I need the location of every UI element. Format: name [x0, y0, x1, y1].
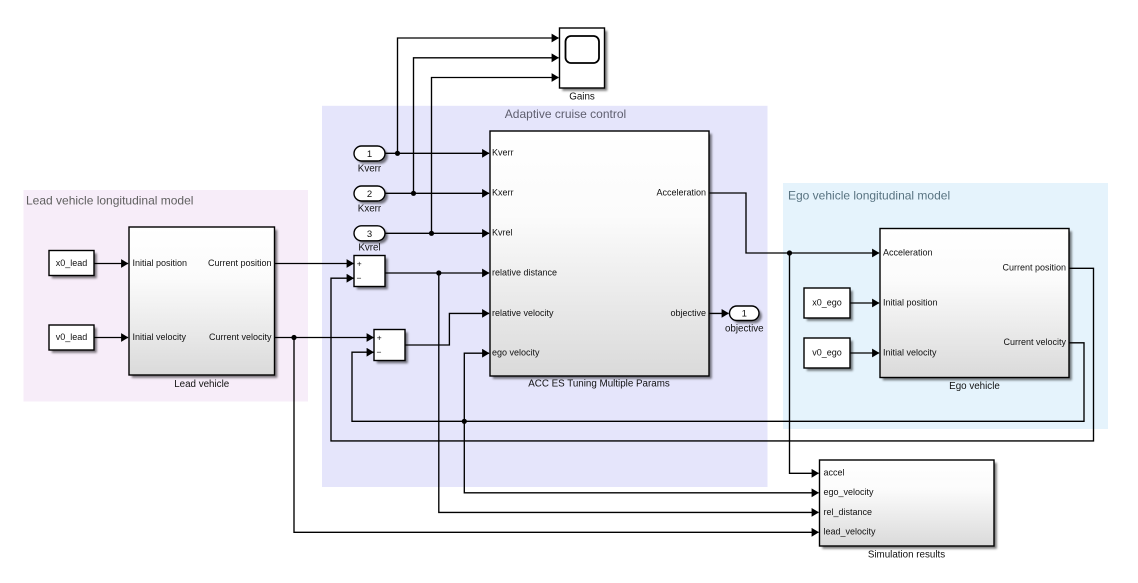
svg-text:−: − — [377, 347, 382, 357]
svg-text:Kxerr: Kxerr — [358, 204, 382, 215]
svg-text:v0_lead: v0_lead — [56, 332, 88, 342]
svg-text:ego velocity: ego velocity — [492, 348, 540, 358]
svg-text:Ego vehicle longitudinal model: Ego vehicle longitudinal model — [788, 189, 950, 203]
svg-text:3: 3 — [367, 229, 372, 240]
svg-text:rel_distance: rel_distance — [824, 507, 873, 517]
svg-text:Kxerr: Kxerr — [492, 188, 514, 198]
svg-text:objective: objective — [670, 308, 706, 318]
svg-text:ACC ES Tuning Multiple Params: ACC ES Tuning Multiple Params — [528, 379, 670, 390]
svg-text:relative distance: relative distance — [492, 268, 557, 278]
svg-text:1: 1 — [367, 149, 372, 160]
svg-text:ego_velocity: ego_velocity — [824, 487, 875, 497]
svg-text:Initial velocity: Initial velocity — [883, 347, 937, 357]
svg-text:accel: accel — [824, 468, 845, 478]
svg-text:v0_ego: v0_ego — [812, 347, 842, 357]
svg-text:Initial position: Initial position — [883, 297, 938, 307]
svg-text:+: + — [377, 332, 382, 342]
svg-text:Ego vehicle: Ego vehicle — [949, 381, 1000, 392]
svg-text:−: − — [357, 273, 362, 283]
svg-text:Lead vehicle longitudinal mode: Lead vehicle longitudinal model — [26, 194, 193, 208]
svg-text:lead_velocity: lead_velocity — [824, 527, 877, 537]
svg-text:Adaptive cruise control: Adaptive cruise control — [505, 107, 626, 121]
svg-text:Kvrel: Kvrel — [358, 243, 380, 254]
svg-text:objective: objective — [725, 323, 764, 334]
svg-text:2: 2 — [367, 189, 372, 200]
svg-text:Initial position: Initial position — [133, 258, 188, 268]
svg-text:+: + — [357, 258, 362, 268]
svg-text:Acceleration: Acceleration — [656, 187, 706, 197]
svg-text:Current position: Current position — [208, 258, 272, 268]
svg-text:x0_lead: x0_lead — [56, 258, 88, 268]
svg-text:Kvrel: Kvrel — [492, 228, 513, 238]
svg-text:Lead vehicle: Lead vehicle — [174, 379, 230, 390]
svg-text:Kverr: Kverr — [358, 164, 382, 175]
svg-text:relative velocity: relative velocity — [492, 308, 554, 318]
svg-text:Simulation results: Simulation results — [868, 549, 945, 560]
svg-text:Kverr: Kverr — [492, 148, 514, 158]
svg-text:Gains: Gains — [569, 92, 595, 103]
svg-text:x0_ego: x0_ego — [812, 297, 842, 307]
svg-text:1: 1 — [742, 309, 747, 320]
svg-text:Acceleration: Acceleration — [883, 247, 933, 257]
svg-text:Current position: Current position — [1002, 263, 1066, 273]
svg-text:Current velocity: Current velocity — [209, 332, 272, 342]
svg-text:Current velocity: Current velocity — [1003, 337, 1066, 347]
svg-text:Initial velocity: Initial velocity — [133, 332, 187, 342]
